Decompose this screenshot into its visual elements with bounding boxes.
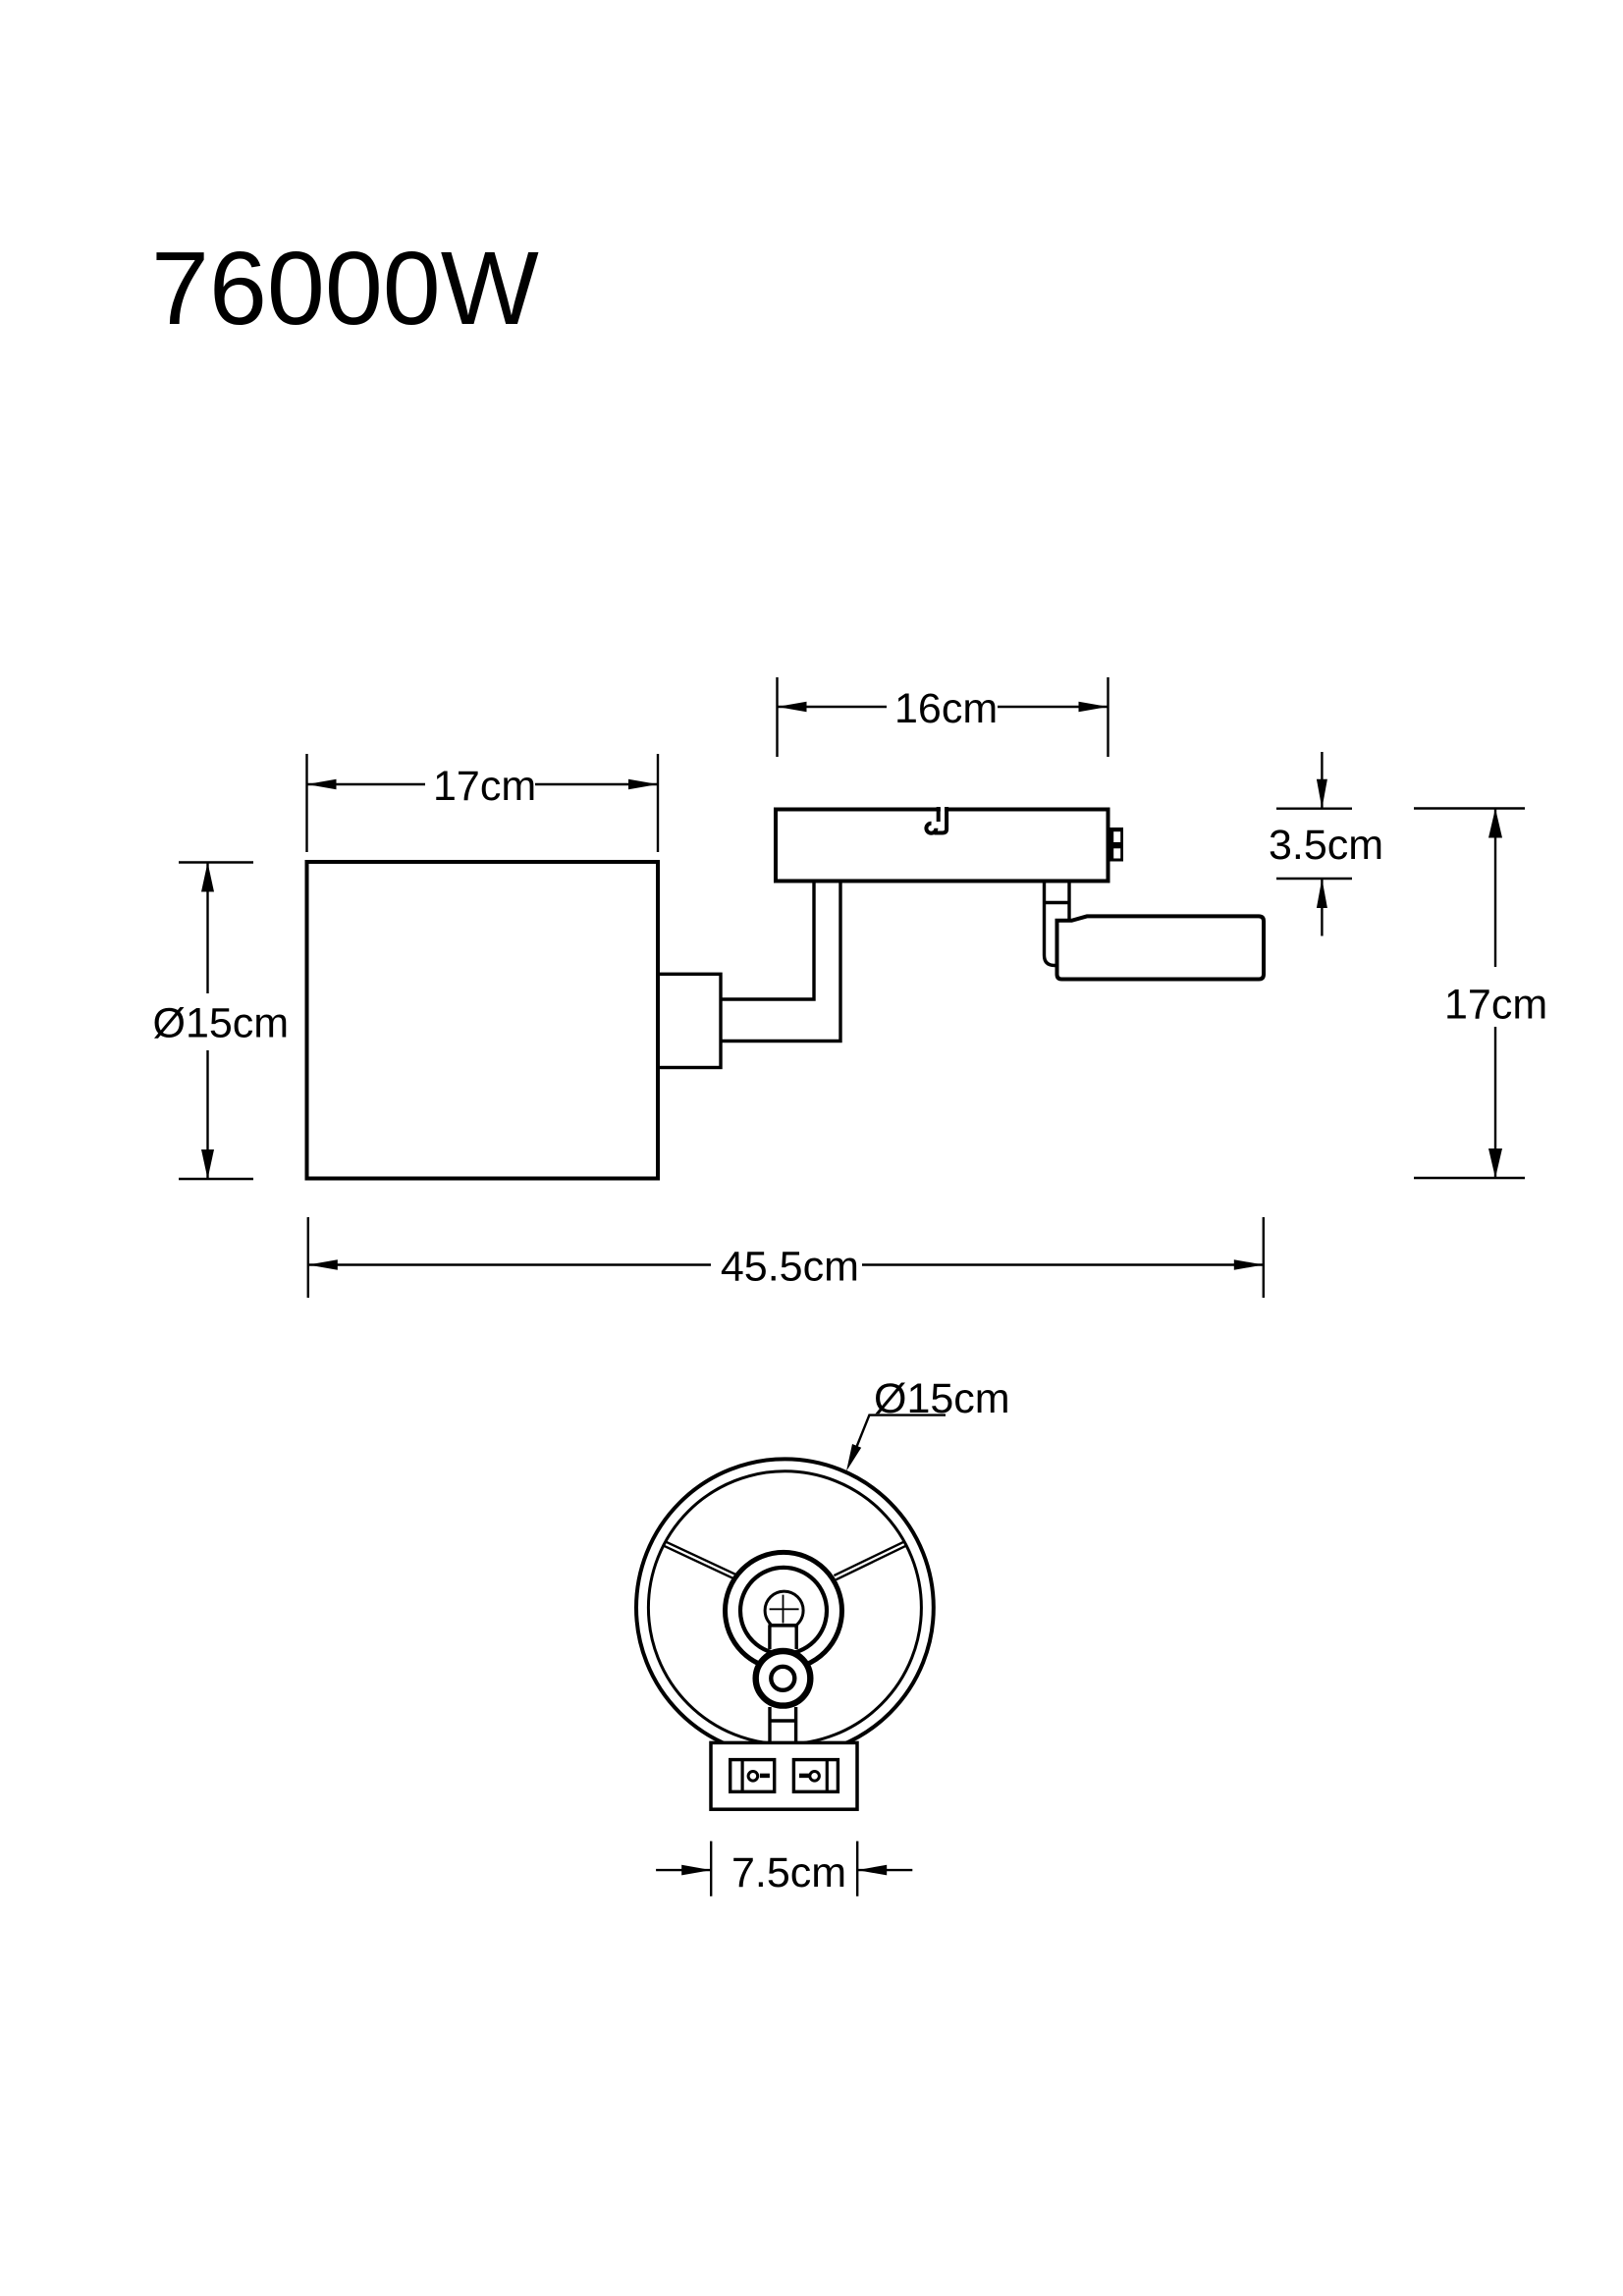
leader Ø15cm: underline and diagonal [850, 1415, 946, 1463]
dimension 16cm plate width: left arrow [778, 702, 807, 713]
bulb cross [770, 1595, 799, 1624]
dimension Ø15cm shade height: ticks [179, 863, 253, 1180]
switch right divider [826, 1760, 829, 1792]
switch right body [793, 1760, 838, 1792]
mounting plate [776, 810, 1109, 881]
dimension 3.5cm: top arrow line [1321, 752, 1323, 809]
socket ring inner [740, 1568, 827, 1654]
dimension 7.5cm: extension lines [711, 1842, 857, 1896]
dimension 3.5cm: bottom arrow line [1321, 879, 1323, 936]
switch right dash glyph [799, 1774, 809, 1779]
spotlight head [1057, 916, 1265, 979]
svg-text:3.5cm: 3.5cm [1269, 822, 1383, 869]
switch left circle glyph [748, 1772, 758, 1782]
dimension 17cm overall height: top arrow [1488, 809, 1502, 838]
knuckle outer ring [756, 1651, 811, 1706]
lower stem [770, 1707, 796, 1744]
leader Ø15cm: arrowhead [846, 1444, 861, 1471]
dimension 17cm overall height: top tick [1414, 807, 1525, 809]
hook slot gap in plate top edge [941, 807, 945, 813]
shade outer circle (front view) [636, 1459, 934, 1756]
arm socket block [658, 974, 721, 1067]
spoke right (double line) [834, 1541, 906, 1579]
dimension 3.5cm: bottom tick [1276, 878, 1352, 880]
knuckle inner ring [771, 1667, 794, 1690]
dimension 7.5cm: right arrow line [857, 1869, 912, 1871]
dimension 45.5cm: right arrow [1234, 1259, 1264, 1270]
svg-text:7.5cm: 7.5cm [731, 1849, 846, 1896]
hanger left line with curl [1045, 882, 1058, 966]
lamp shade rectangle (side view) [307, 862, 659, 1179]
dimension 45.5cm: left arrow [308, 1259, 338, 1270]
neck below bulb [772, 1624, 795, 1651]
hook slot left wall [937, 807, 941, 822]
hanger rung [1045, 901, 1070, 904]
dimension Ø15cm shade height: top arrow [201, 863, 214, 892]
dimension 45.5cm: extension lines [308, 1217, 1264, 1298]
switch right circle glyph [810, 1772, 820, 1782]
hook slot right wall with bottom curl [935, 807, 947, 833]
dimension 17cm overall height: bottom arrow [1488, 1148, 1502, 1178]
svg-text:45.5cm: 45.5cm [721, 1244, 859, 1291]
dimension 45.5cm: dimension line [308, 1263, 1264, 1265]
dimension 16cm plate width: right arrow [1079, 702, 1109, 713]
arm tube lower line [720, 882, 840, 1041]
dimension 17cm shade width: dimension line [307, 783, 659, 785]
svg-text:17cm: 17cm [433, 763, 536, 810]
dimension 3.5cm: top tick [1276, 808, 1352, 810]
svg-text:17cm: 17cm [1444, 982, 1547, 1029]
switch box [711, 1742, 857, 1809]
dimension 16cm plate width: dimension line [778, 706, 1109, 708]
dimension 17cm shade width: right arrow [628, 779, 658, 790]
switch left divider [740, 1760, 743, 1792]
dimension 17cm shade width: extension lines [307, 754, 659, 852]
hanger right line [1067, 882, 1070, 922]
shade inner circle (front view) [648, 1471, 921, 1744]
socket ring outer [726, 1552, 842, 1669]
switch left body [730, 1760, 775, 1792]
latch on plate right edge [1108, 828, 1123, 862]
svg-text:76000W: 76000W [151, 231, 539, 347]
dimension Ø15cm shade height: bottom arrow [201, 1149, 214, 1179]
dimension Ø15cm shade height: dimension line [206, 863, 208, 1180]
svg-text:16cm: 16cm [894, 685, 998, 732]
dimension 17cm overall height: dimension line [1494, 809, 1496, 1179]
dimension Ø15cm shade height: label [148, 997, 284, 1044]
dimension 17cm shade width: left arrow [307, 779, 337, 790]
switch left dash glyph [760, 1774, 770, 1779]
dimension 16cm plate width: extension lines [778, 677, 1109, 757]
bulb circle [765, 1591, 803, 1629]
svg-text:Ø15cm: Ø15cm [153, 1000, 290, 1047]
arm tube upper line [720, 882, 814, 999]
hook slot hook eye [926, 824, 936, 833]
dimension 17cm overall height: bottom tick [1414, 1177, 1525, 1179]
lower stem rung [770, 1719, 796, 1722]
spoke left (double line) [664, 1541, 736, 1578]
dimension 7.5cm: left arrow line [656, 1869, 711, 1871]
